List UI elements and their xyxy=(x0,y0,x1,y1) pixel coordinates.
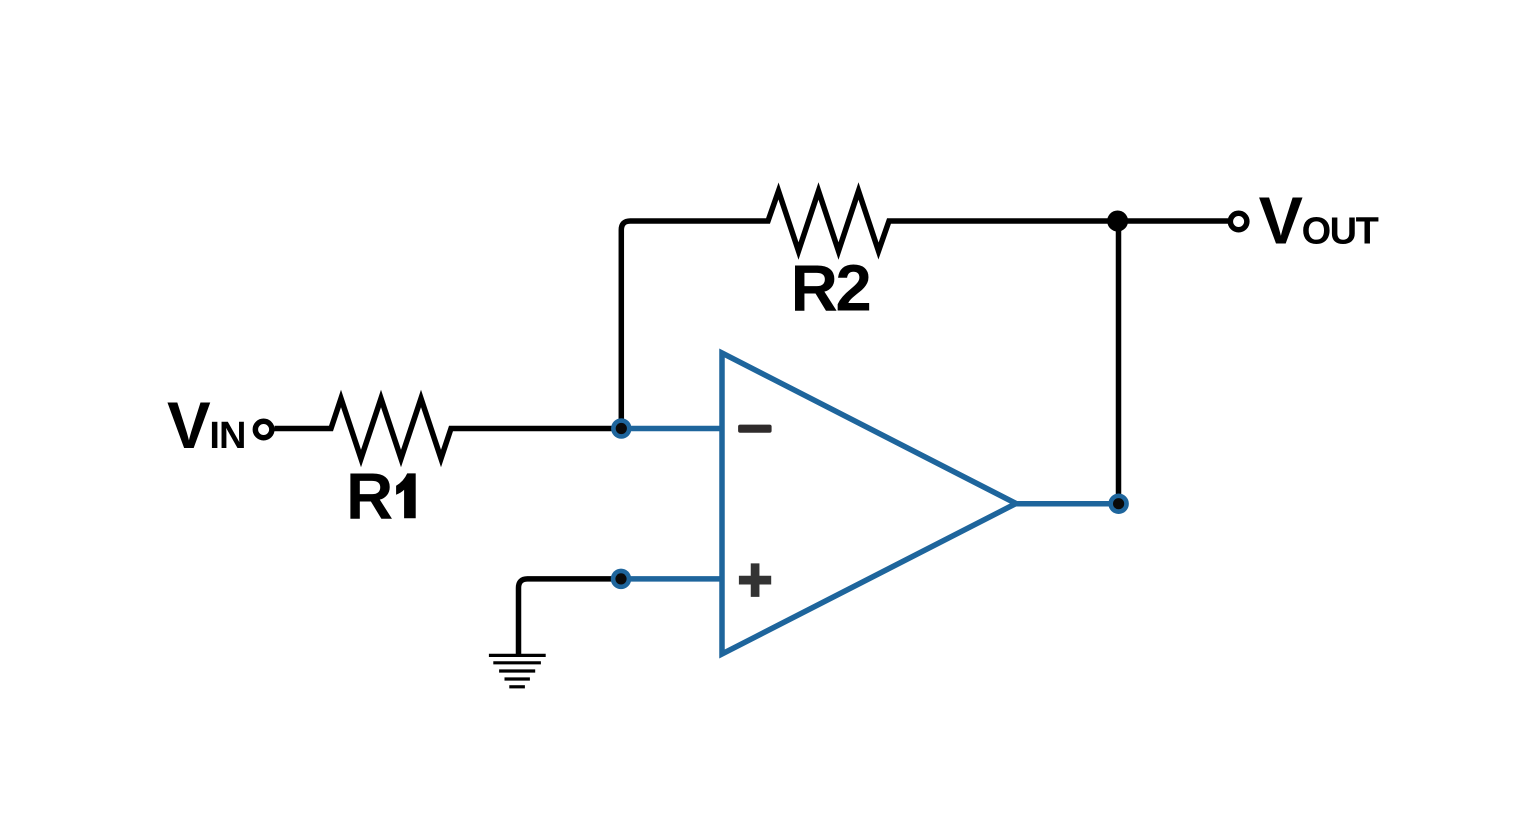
svg-text:V: V xyxy=(167,389,211,462)
svg-text:IN: IN xyxy=(209,415,245,457)
svg-text:R: R xyxy=(346,459,393,532)
svg-text:V: V xyxy=(1259,185,1303,259)
svg-text:OUT: OUT xyxy=(1302,211,1379,253)
svg-text:2: 2 xyxy=(835,251,871,324)
svg-text:R: R xyxy=(791,251,838,324)
